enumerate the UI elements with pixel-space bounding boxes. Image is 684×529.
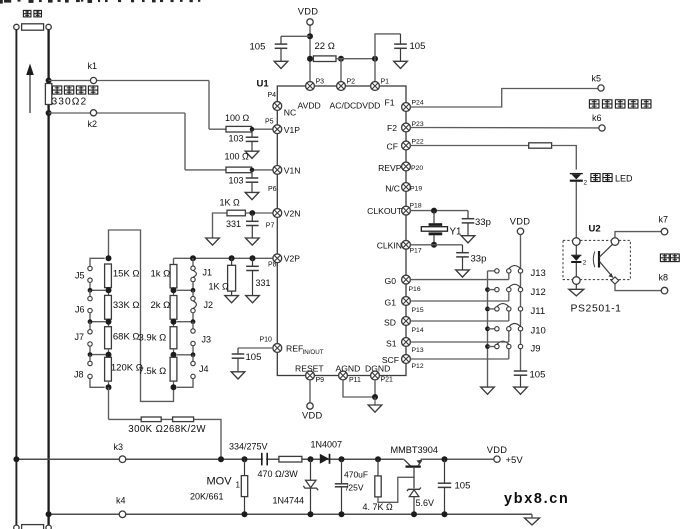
svg-text:20K/661: 20K/661	[190, 492, 224, 502]
pin P5 V1P	[273, 125, 282, 134]
resistor 100ohm V1P	[226, 126, 252, 132]
capacitor 334/275V series	[262, 453, 267, 466]
svg-text:J8: J8	[74, 370, 84, 380]
pin P13 S1	[402, 338, 411, 347]
svg-text:P18: P18	[410, 203, 422, 210]
svg-text:1N4007: 1N4007	[311, 440, 343, 450]
resistor 300K	[141, 417, 161, 422]
resistor 15K	[105, 264, 112, 288]
wire REF to 105 cap	[238, 347, 273, 349]
terminal k5	[598, 85, 604, 91]
resistor 7.5k	[170, 357, 177, 381]
svg-text:CF: CF	[387, 142, 398, 152]
ground VDD rail	[514, 387, 528, 394]
svg-text:F2: F2	[387, 123, 397, 133]
svg-text:F1: F1	[384, 98, 394, 108]
svg-text:5.6V: 5.6V	[416, 498, 435, 508]
wire F1 to k5	[410, 89, 598, 108]
terminal VDD jumper bank	[517, 228, 523, 234]
resistor 1k	[170, 265, 177, 288]
wire opto cathode to ground	[575, 284, 577, 289]
svg-text:VDD: VDD	[510, 216, 531, 226]
wire 22ohm node to DVDD node	[336, 58, 375, 60]
wire emitter to VDD out	[422, 458, 494, 460]
svg-text:J3: J3	[202, 335, 212, 345]
svg-text:IN/OUT: IN/OUT	[303, 349, 324, 356]
svg-text:k2: k2	[88, 119, 98, 129]
ground left rail	[481, 387, 495, 394]
junction ground rail / J10	[485, 326, 490, 331]
svg-text:U2: U2	[589, 223, 601, 234]
ground REF cap	[231, 372, 245, 379]
junction 470uF tap	[339, 456, 345, 462]
wire AGND to DGND node	[343, 380, 375, 397]
svg-text:105: 105	[246, 352, 262, 363]
svg-text:105: 105	[455, 481, 471, 492]
svg-text:J10: J10	[531, 326, 546, 337]
wire collector to k7	[615, 232, 661, 238]
wire CF to series resistor	[410, 145, 528, 147]
IC U1 body	[277, 86, 406, 376]
LED 校验LED	[570, 174, 588, 187]
wire k2 horizontal	[49, 112, 185, 114]
svg-text:1N4744: 1N4744	[273, 496, 305, 506]
svg-text:V1N: V1N	[284, 166, 301, 176]
pin P16 G0	[402, 275, 411, 284]
wire CLKIN node	[410, 244, 462, 246]
resistor 22 Ω	[313, 56, 336, 62]
fuse F left terminal	[14, 24, 19, 29]
capacitor 470uF/25V	[335, 459, 348, 514]
svg-text:P6: P6	[268, 186, 277, 193]
svg-text:2k Ω: 2k Ω	[151, 300, 171, 311]
svg-text:4. 7K Ω: 4. 7K Ω	[363, 502, 394, 512]
ground 33p upper	[461, 236, 475, 243]
pin V1N	[273, 166, 282, 175]
svg-text:331: 331	[226, 219, 241, 229]
jumper J5	[88, 258, 106, 290]
svg-text:AGND: AGND	[336, 363, 361, 373]
pin P4 NC	[273, 102, 282, 111]
svg-text:k3: k3	[114, 442, 124, 452]
svg-text:/25V: /25V	[346, 482, 364, 492]
ground power return	[525, 514, 540, 525]
capacitor 105 (REF)	[232, 348, 245, 371]
jumper J7	[88, 322, 106, 355]
svg-text:CLKIN: CLKIN	[377, 241, 402, 251]
svg-text:105: 105	[410, 41, 426, 52]
pin P1 DVDD	[371, 82, 380, 91]
pin P10 REF	[273, 344, 282, 353]
svg-text:S1: S1	[386, 339, 397, 349]
junction right bus / k1 wire	[46, 78, 52, 84]
svg-text:1K Ω: 1K Ω	[220, 198, 241, 208]
junction J3/J4	[191, 352, 196, 357]
junction V1N filter node	[250, 168, 255, 173]
svg-text:P16: P16	[409, 286, 421, 293]
ground 33p lower	[456, 270, 470, 277]
pin P12 SCF	[402, 355, 411, 364]
wire R to pin V1P	[252, 128, 274, 130]
top cut-off text row (partial glyph bottoms)	[0, 0, 200, 4]
capacitor 105 (DVDD)	[394, 34, 407, 61]
U2 anode pin	[573, 238, 581, 246]
capacitor 33p upper	[462, 211, 475, 236]
svg-text:CLKOUT: CLKOUT	[367, 206, 403, 216]
junction right ladder bottom node	[171, 381, 177, 390]
junction V1P filter node	[250, 127, 255, 132]
U2 cathode pin	[573, 277, 581, 285]
svg-text:k7: k7	[659, 215, 669, 225]
bottom cut-off fuse element	[14, 525, 52, 529]
wire left ladder bottom to 300K row	[108, 387, 110, 419]
wire k1 horizontal	[49, 80, 209, 82]
svg-text:P9: P9	[316, 377, 325, 384]
wire VDD rail jumpers	[520, 235, 522, 371]
wire k4 ground return line	[49, 513, 532, 515]
resistor 120K	[105, 357, 112, 381]
sampling resistor 采样电阻 330Ω2 body	[45, 84, 51, 105]
junction node 33K/68K	[106, 319, 112, 327]
jumper J2 (closed)	[177, 290, 197, 321]
junction J2/J3	[191, 319, 196, 324]
wire CLKOUT node	[410, 210, 468, 212]
resistor 268K/2W	[173, 417, 194, 422]
U2 collector pin	[611, 238, 619, 246]
right mains bus wire (neutral)	[47, 30, 49, 529]
svg-text:P24: P24	[412, 99, 424, 106]
wire to 105 decoupling left	[281, 35, 310, 37]
wire V2P down into right ladder	[173, 258, 175, 264]
svg-text:NC: NC	[284, 108, 296, 118]
svg-text:J5: J5	[75, 271, 85, 281]
pin P23 F2	[402, 123, 411, 132]
svg-text:G1: G1	[385, 298, 397, 308]
svg-text:1: 1	[236, 481, 241, 490]
wire LED to opto	[575, 182, 577, 238]
svg-text:k8: k8	[659, 273, 669, 283]
svg-text:V1P: V1P	[284, 125, 301, 135]
ground V2N filter	[246, 238, 260, 245]
left mains bus wire (phase)	[15, 30, 17, 529]
wire R to pin V2N	[245, 212, 273, 214]
terminal VDD top	[307, 19, 313, 25]
svg-text:REVP: REVP	[378, 163, 402, 173]
svg-text:103: 103	[229, 134, 244, 144]
jumper J8	[88, 355, 105, 388]
svg-text:P8: P8	[268, 262, 277, 269]
wire G0 to J13	[410, 279, 509, 281]
svg-text:2: 2	[584, 180, 588, 187]
svg-text:68K Ω: 68K Ω	[113, 332, 140, 343]
resistor 470R/3W	[279, 456, 302, 462]
pin P21 DGND	[371, 371, 380, 380]
svg-text:33p: 33p	[471, 254, 487, 265]
terminal k1	[90, 77, 96, 83]
svg-text:P15: P15	[412, 307, 424, 314]
U2 phototransistor	[593, 244, 613, 278]
junction J7/J8	[88, 352, 93, 357]
resistor 1K V2N	[227, 210, 245, 216]
ground opto	[569, 289, 584, 296]
current direction arrow	[26, 64, 34, 114]
junction CLKIN/crystal	[431, 242, 437, 248]
svg-text:PS2501-1: PS2501-1	[571, 304, 622, 315]
wire S1 to J10	[410, 341, 509, 343]
svg-text:22 Ω: 22 Ω	[315, 41, 335, 52]
junction MOV bottom	[242, 511, 248, 517]
wire R V2N left leg	[213, 213, 228, 238]
svg-text:J4: J4	[199, 364, 209, 374]
pin P17 CLKIN	[402, 240, 411, 249]
junction node 2k/3.9k	[171, 319, 177, 327]
svg-text:J2: J2	[204, 300, 214, 310]
junction left ladder bottom node	[106, 381, 112, 390]
wire RESET to VDD	[309, 380, 311, 403]
junction V2P / 331 cap	[250, 255, 256, 261]
resistor 4.7K	[375, 459, 414, 502]
zener diode 5.6V	[407, 488, 421, 515]
wire SCF to J9	[410, 358, 509, 360]
capacitor 331 on V2P	[246, 258, 259, 295]
capacitor 33p lower	[456, 245, 469, 270]
svg-text:P20: P20	[411, 165, 423, 172]
pin P15 G1	[402, 297, 411, 306]
terminal k7	[661, 228, 668, 235]
pin P14 SD	[402, 317, 411, 326]
svg-text:SD: SD	[384, 318, 396, 328]
wire DVDD pin drop	[374, 59, 376, 82]
capacitor 105 (AVDD)	[275, 36, 288, 61]
svg-text:P1: P1	[381, 79, 390, 86]
svg-text:P5: P5	[265, 119, 274, 126]
zener diode 1N4744	[303, 459, 318, 514]
svg-text:VDD: VDD	[487, 445, 508, 455]
svg-text:105: 105	[530, 370, 546, 381]
junction 105 out tap	[442, 456, 448, 462]
svg-text:MOV: MOV	[207, 476, 233, 488]
svg-text:V2N: V2N	[284, 209, 301, 219]
jumper J1 (closed)	[177, 258, 197, 290]
junction node 3.9k/7.5k	[171, 349, 177, 358]
svg-text:P12: P12	[412, 363, 424, 370]
svg-text:AVDD: AVDD	[298, 101, 321, 111]
wire F2 to k6	[410, 127, 598, 129]
pin P2 AC/DC	[337, 82, 346, 91]
fuse F right terminal	[46, 24, 51, 29]
svg-text:1k Ω: 1k Ω	[151, 269, 171, 280]
junction node 15K/33K	[106, 287, 112, 295]
terminal VDD +5V	[494, 456, 500, 462]
svg-text:LED: LED	[615, 174, 633, 184]
svg-text:ybx8.cn: ybx8.cn	[504, 491, 570, 507]
wire bridge right-ladder bottom to left-ladder top	[109, 230, 174, 401]
diode 1N4007	[320, 454, 330, 464]
junction 105 output bottom	[442, 511, 448, 517]
terminal k4	[119, 511, 126, 518]
terminal k6	[599, 125, 605, 131]
wire k3 line	[16, 458, 493, 460]
svg-text:7.5k Ω: 7.5k Ω	[139, 366, 167, 377]
wire k2 to V1N input vertical	[184, 113, 186, 170]
svg-text:P7: P7	[266, 223, 275, 230]
junction MOV tap	[242, 456, 248, 462]
svg-text:k1: k1	[88, 61, 98, 71]
resistor 100ohm V1N	[226, 167, 252, 173]
ground V2P 331	[246, 296, 260, 303]
svg-text:105: 105	[250, 42, 266, 53]
wire DGND drop	[374, 380, 376, 397]
svg-text:334/275V: 334/275V	[229, 441, 268, 451]
pin P3 AVDD	[306, 82, 315, 91]
svg-text:1K Ω: 1K Ω	[209, 282, 230, 292]
junction CLKOUT/crystal	[431, 208, 437, 214]
junction ground rail / J12	[485, 287, 490, 292]
svg-text:J11: J11	[531, 306, 546, 317]
svg-text:REF: REF	[286, 344, 303, 354]
junction node 68K/120K	[106, 349, 112, 358]
svg-text:330Ω2: 330Ω2	[52, 96, 88, 107]
svg-text:MMBT3904: MMBT3904	[391, 445, 439, 455]
svg-text:Y1: Y1	[450, 227, 462, 238]
label 较表	[660, 254, 679, 262]
capacitor 103 on V1N	[246, 170, 259, 192]
label 校验LED	[591, 174, 633, 184]
svg-text:DVDD: DVDD	[356, 101, 380, 111]
resistor 2k	[170, 296, 177, 320]
ground V1P filter	[245, 151, 259, 158]
junction 4.7K tap	[375, 456, 381, 462]
pin P22 CF	[402, 141, 411, 150]
wire 300K row	[109, 419, 222, 458]
U2 internal LED	[571, 245, 587, 276]
junction left ladder top node	[106, 255, 112, 261]
svg-text:33p: 33p	[475, 217, 491, 228]
terminal k3	[119, 456, 126, 463]
svg-text:P14: P14	[412, 327, 424, 334]
svg-text:15K Ω: 15K Ω	[113, 269, 140, 280]
ground DVDD cap	[394, 61, 408, 68]
jumper J3 (open)	[177, 322, 195, 355]
junction node 1k/2k	[171, 287, 177, 295]
label 采样电阻	[52, 86, 97, 94]
svg-text:J1: J1	[203, 268, 213, 278]
pin P24 F1	[402, 103, 411, 112]
svg-text:P19: P19	[410, 185, 422, 192]
junction V2N filter node	[249, 210, 255, 216]
pin P20 REVP	[402, 162, 411, 171]
capacitor 105 jumper bank	[514, 371, 527, 387]
svg-text:470 Ω/3W: 470 Ω/3W	[258, 469, 299, 479]
junction J6/J7	[88, 319, 93, 324]
label REF IN/OUT	[286, 344, 324, 357]
svg-text:P13: P13	[412, 347, 424, 354]
svg-text:G0: G0	[385, 276, 397, 286]
crystal Y1	[421, 211, 447, 245]
svg-text:U1: U1	[257, 79, 270, 90]
ground AVDD cap	[274, 61, 288, 68]
pin P9 RESET	[306, 371, 315, 380]
wire V2P node horizontal	[174, 257, 274, 259]
ground V1N filter	[245, 192, 259, 199]
svg-text:100 Ω: 100 Ω	[225, 152, 250, 162]
svg-text:33K Ω: 33K Ω	[113, 300, 140, 311]
junction 22ohm/ACDC	[338, 56, 344, 62]
pin V2N	[273, 209, 282, 218]
junction V2P / 1K divider	[229, 255, 235, 261]
svg-text:VDD: VDD	[298, 7, 319, 17]
svg-text:300K Ω268K/2W: 300K Ω268K/2W	[128, 424, 206, 435]
svg-text:P22: P22	[412, 139, 424, 146]
junction VDD/105 cap	[307, 33, 313, 39]
junction zener 1N4744 tap	[308, 456, 314, 462]
svg-text:3.9k Ω: 3.9k Ω	[139, 333, 167, 344]
jumper J11	[488, 304, 523, 321]
jumper J9	[488, 341, 523, 359]
wire into R V1P	[209, 128, 226, 130]
wire DVDD node up to 105 cap	[375, 34, 401, 59]
jumper J12	[488, 284, 523, 301]
junction VDD/22ohm	[307, 56, 313, 62]
pin P18 CLKOUT	[402, 206, 411, 215]
svg-text:331: 331	[256, 278, 271, 288]
junction J1/J2	[191, 288, 196, 293]
label fuse 保险	[23, 10, 41, 16]
svg-text:P17: P17	[410, 248, 422, 255]
svg-text:P21: P21	[381, 377, 394, 384]
svg-text:k5: k5	[592, 74, 602, 84]
wire ACDC pin drop	[340, 59, 342, 82]
svg-text:J6: J6	[75, 305, 85, 315]
svg-text:P11: P11	[349, 377, 361, 384]
junction right bus / k2 wire	[46, 110, 52, 116]
wire emitter to k8	[615, 284, 661, 291]
junction ground rail / J11	[485, 307, 490, 312]
pin V2P	[273, 254, 282, 263]
fuse F body	[22, 24, 44, 30]
svg-text:k6: k6	[592, 113, 602, 123]
svg-text:J12: J12	[531, 287, 546, 298]
jumper J13	[488, 266, 523, 280]
label 至步进电机	[589, 100, 651, 108]
junction AGND/DGND	[372, 394, 378, 400]
svg-text:P3: P3	[316, 79, 325, 86]
svg-text:470uF: 470uF	[344, 469, 368, 479]
pin P11 AGND	[339, 371, 348, 380]
wire SD to J11	[410, 320, 509, 322]
svg-text:VDD: VDD	[302, 411, 323, 421]
wire G1 to J12	[410, 300, 509, 302]
resistor 33K	[105, 295, 112, 319]
U2 emitter pin (diamond)	[611, 277, 618, 284]
jumper J4 (open)	[177, 355, 195, 388]
wire R to pin V1N	[252, 169, 274, 171]
capacitor 105 output	[438, 459, 451, 514]
junction right bus / k4	[46, 511, 52, 517]
capacitor 103 on V1P	[246, 129, 259, 151]
wire k1 to V1P input vertical	[208, 81, 210, 130]
junction V2P / ladder top	[190, 255, 196, 261]
svg-text:AC/DC: AC/DC	[330, 101, 357, 111]
terminal k8	[661, 287, 668, 294]
resistor 68K	[105, 327, 112, 349]
jumper J6	[88, 290, 106, 321]
wire resistor to LED corner	[552, 146, 577, 170]
jumper J10	[488, 324, 523, 343]
wire VDD to AVDD	[309, 25, 311, 82]
junction 300K tap	[218, 456, 224, 462]
svg-text:k4: k4	[116, 496, 126, 506]
